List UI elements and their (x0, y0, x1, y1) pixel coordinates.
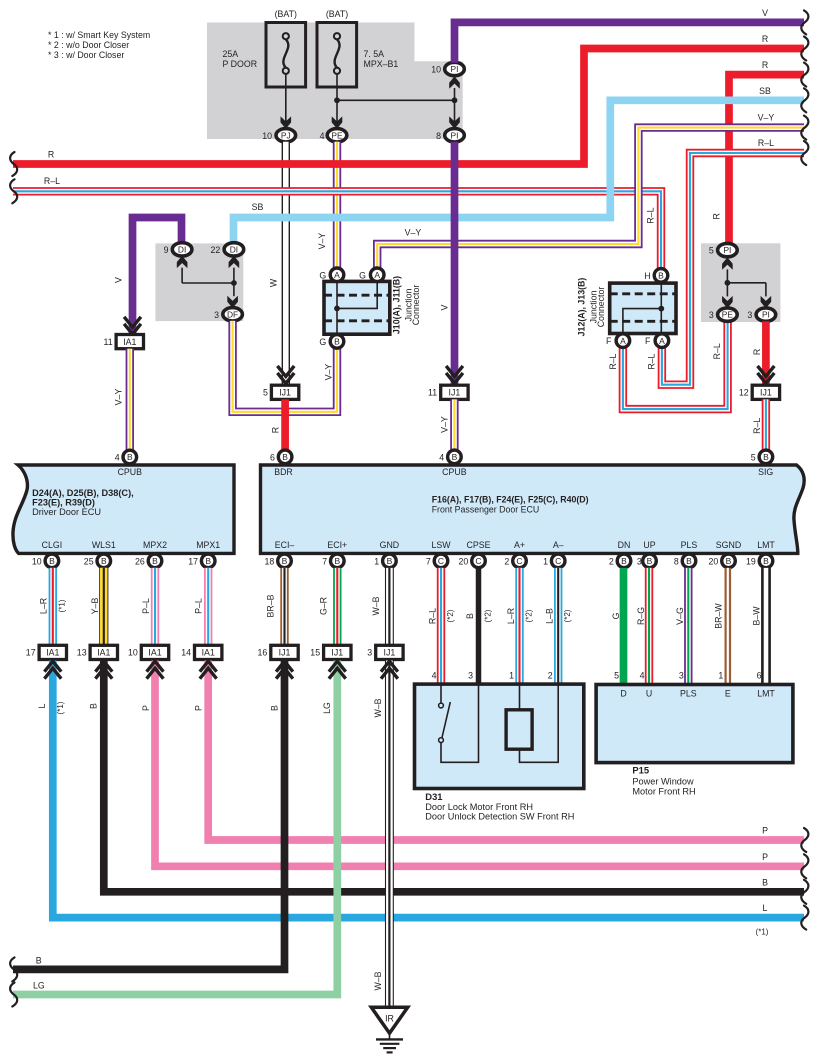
chevron arrows into IA1/IJ1 row (44, 661, 61, 672)
svg-text:A: A (374, 270, 380, 280)
svg-text:L–B: L–B (545, 608, 555, 624)
wire V (violet) to IA1 (133, 218, 182, 339)
svg-text:11: 11 (428, 388, 437, 398)
svg-text:CLGI: CLGI (42, 540, 63, 550)
svg-text:W–B: W–B (371, 596, 381, 615)
svg-text:R–L: R–L (646, 207, 656, 223)
svg-text:B: B (726, 556, 732, 566)
svg-text:SB: SB (759, 86, 771, 96)
svg-text:PJ: PJ (281, 130, 291, 140)
svg-text:PI: PI (451, 64, 459, 74)
wire V-Y right edge to junction J10 pin A (377, 128, 804, 269)
svg-text:1: 1 (374, 556, 379, 566)
wire fuse 7.5A to PE with branch to PI (336, 74, 338, 123)
svg-text:4: 4 (320, 131, 325, 141)
svg-text:DN: DN (618, 540, 631, 550)
wire V-Y IJ1 to passenger ECU CPUB (450, 399, 458, 450)
svg-text:19: 19 (746, 556, 756, 566)
wire B-W LMT to P15 (761, 568, 771, 685)
svg-text:BR–W: BR–W (714, 603, 724, 629)
svg-text:(BAT): (BAT) (326, 9, 348, 19)
svg-text:3: 3 (679, 671, 684, 681)
junction J12 pin A (right F) (655, 334, 669, 348)
svg-text:11: 11 (103, 337, 112, 347)
svg-text:B: B (282, 556, 288, 566)
svg-text:B: B (36, 956, 42, 966)
svg-text:CPSE: CPSE (467, 540, 491, 550)
connector IA1 pin 10 (141, 645, 168, 659)
svg-text:2: 2 (609, 556, 614, 566)
svg-text:ECI–: ECI– (275, 540, 295, 550)
svg-text:V–Y: V–Y (317, 233, 327, 250)
svg-text:J10(A), J11(B): J10(A), J11(B) (392, 276, 402, 334)
svg-text:B: B (465, 613, 475, 619)
connector block DI/DF (gray) (155, 243, 243, 321)
connector PE pin 3 (718, 308, 738, 321)
svg-text:L–R: L–R (506, 608, 516, 624)
port B pin 26 MPX2 (148, 554, 162, 568)
component P15 Power Window Motor Front RH (596, 685, 793, 763)
wire BR-B ECI- to IJ1 (280, 568, 288, 645)
svg-text:B: B (334, 556, 340, 566)
svg-text:IJ1: IJ1 (279, 648, 291, 658)
svg-text:R: R (752, 349, 762, 355)
port B pin 7 ECI+ (331, 554, 345, 568)
svg-text:A: A (620, 336, 626, 346)
svg-text:PLS: PLS (681, 540, 698, 550)
svg-text:MPX2: MPX2 (143, 540, 167, 550)
svg-text:4: 4 (640, 671, 645, 681)
wire B (black) IJ1 to left edge bus (13, 661, 285, 970)
svg-text:SGND: SGND (716, 540, 741, 550)
svg-text:(*2): (*2) (525, 609, 534, 622)
svg-text:(*2): (*2) (484, 609, 493, 622)
svg-text:MPX–B1: MPX–B1 (364, 59, 399, 69)
svg-text:DI: DI (178, 245, 186, 255)
svg-text:2: 2 (548, 671, 553, 681)
svg-text:C: C (438, 556, 444, 566)
connector block PE/PI (gray) (701, 243, 780, 322)
junction J10 pin B (330, 335, 344, 349)
svg-text:PI: PI (723, 245, 731, 255)
wire P-L MPX1 to IA1 (204, 568, 212, 645)
svg-text:R: R (48, 150, 54, 160)
svg-text:J12(A), J13(B): J12(A), J13(B) (577, 278, 587, 337)
svg-text:B: B (152, 556, 158, 566)
wire R connector PI pin 3 to IJ1 pin 12 (762, 321, 770, 386)
svg-text:1: 1 (543, 556, 548, 566)
wire V (violet) connector PI pin 8 to IJ1 pin 11 (451, 142, 459, 386)
svg-text:A: A (659, 336, 665, 346)
svg-text:V–Y: V–Y (113, 389, 123, 406)
wire P-L MPX2 to IA1 (151, 568, 159, 645)
junction J10 pin A (right) (370, 268, 384, 282)
wire B CPSE to D31 (476, 568, 482, 684)
port B pin 4 passenger ECU CPUB (448, 450, 462, 464)
connector IJ1 pin 12 (752, 385, 779, 399)
svg-text:(*1): (*1) (58, 599, 67, 612)
svg-text:10: 10 (128, 648, 138, 658)
svg-text:CPUB: CPUB (442, 467, 467, 477)
svg-text:Door Lock Motor Front RH: Door Lock Motor Front RH (425, 802, 533, 812)
wire R-L LSW to D31 (437, 568, 445, 684)
svg-text:P: P (762, 852, 768, 862)
svg-text:5: 5 (614, 671, 619, 681)
wire V-Y DF and J10 pin B to IJ1 (233, 321, 337, 412)
svg-text:Connector: Connector (411, 285, 421, 326)
connector DI pin 22 (224, 243, 244, 256)
wire V-Y PE to junction J10 pin A (333, 142, 341, 268)
svg-text:20: 20 (709, 556, 719, 566)
wire L-R A+ to D31 (515, 568, 523, 684)
svg-text:A–: A– (553, 540, 564, 550)
connector IJ1 pin 15 (324, 645, 351, 659)
svg-text:B: B (205, 556, 211, 566)
port B pin 6 passenger ECU BDR (278, 450, 292, 464)
svg-text:R: R (762, 34, 768, 44)
svg-text:G–R: G–R (319, 597, 329, 615)
svg-text:5: 5 (751, 452, 756, 462)
port B pin 4 driver ECU CPUB (123, 450, 137, 464)
svg-text:25: 25 (84, 556, 94, 566)
svg-text:B: B (334, 337, 340, 347)
wire P (pink) IA1 to right edge bus (upper) (208, 661, 804, 841)
svg-text:ECI+: ECI+ (327, 540, 347, 550)
port C pin 1 A- (551, 554, 565, 568)
door unlock detection switch in D31 (440, 685, 442, 703)
svg-text:5: 5 (709, 246, 714, 256)
svg-text:PI: PI (451, 130, 459, 140)
svg-text:P–L: P–L (141, 598, 151, 614)
wire P (pink) IA1 to right edge bus (lower) (155, 661, 804, 867)
svg-text:Driver Door ECU: Driver Door ECU (32, 507, 101, 517)
svg-text:IA1: IA1 (202, 648, 215, 658)
svg-text:R–L: R–L (428, 608, 438, 624)
svg-text:B: B (452, 452, 458, 462)
svg-text:V–Y: V–Y (405, 228, 422, 238)
svg-text:A: A (334, 270, 340, 280)
svg-text:R–L: R–L (44, 176, 60, 186)
svg-text:IJ1: IJ1 (449, 388, 461, 398)
door lock motor symbol in D31 (506, 710, 532, 749)
connector IJ1 pin 16 (271, 645, 298, 659)
svg-text:R: R (762, 60, 768, 70)
svg-text:B: B (763, 556, 769, 566)
svg-text:(BAT): (BAT) (275, 9, 297, 19)
svg-text:22: 22 (211, 245, 221, 255)
svg-text:U: U (646, 689, 652, 699)
port B pin 5 passenger ECU SIG (759, 450, 773, 464)
port B pin 25 WLS1 (97, 554, 111, 568)
component D31 Door Lock Motor Front RH (415, 684, 584, 788)
svg-text:B: B (387, 556, 393, 566)
svg-text:MPX1: MPX1 (196, 540, 220, 550)
svg-text:R–L: R–L (608, 353, 618, 369)
wire R-L right edge to junction J12 pin A (662, 153, 804, 385)
svg-text:V–Y: V–Y (758, 113, 775, 123)
connector DF pin 3 (223, 308, 243, 321)
svg-text:Door Unlock Detection SW Front: Door Unlock Detection SW Front RH (425, 812, 574, 822)
svg-text:B: B (269, 705, 279, 711)
svg-text:SIG: SIG (758, 467, 773, 477)
svg-text:PE: PE (722, 310, 734, 320)
svg-text:W–B: W–B (373, 698, 383, 717)
svg-text:B: B (282, 452, 288, 462)
fuse block (gray) (207, 23, 463, 140)
svg-text:(*1): (*1) (56, 701, 65, 714)
svg-text:B: B (686, 556, 692, 566)
junction J12 pin B (H) (654, 269, 668, 283)
svg-text:H: H (644, 271, 650, 281)
svg-text:IJ1: IJ1 (760, 388, 772, 398)
svg-text:Connector: Connector (596, 287, 606, 328)
port C pin 20 CPSE (472, 554, 486, 568)
svg-text:IJ1: IJ1 (384, 648, 396, 658)
svg-text:18: 18 (265, 556, 275, 566)
svg-text:2: 2 (504, 556, 509, 566)
svg-text:DF: DF (227, 309, 238, 319)
svg-text:P: P (141, 705, 151, 711)
svg-text:6: 6 (270, 452, 275, 462)
connector IJ1 pin 11 (441, 385, 468, 399)
svg-text:B: B (762, 878, 768, 888)
junction J10 pin A (left) (330, 268, 344, 282)
svg-text:R: R (712, 213, 722, 219)
svg-text:GND: GND (380, 540, 400, 550)
ground IR (371, 1007, 407, 1033)
svg-text:V: V (114, 277, 124, 283)
svg-text:14: 14 (181, 648, 191, 658)
svg-text:V–Y: V–Y (324, 364, 334, 381)
svg-text:IA1: IA1 (46, 648, 59, 658)
junction connector J10(A) J11(B) (324, 281, 390, 334)
svg-text:UP: UP (643, 540, 655, 550)
port B pin 10 CLGI (45, 554, 59, 568)
svg-text:PI: PI (762, 310, 770, 320)
svg-text:BDR: BDR (274, 467, 293, 477)
svg-text:IA1: IA1 (97, 648, 110, 658)
svg-text:10: 10 (431, 65, 441, 75)
svg-text:PE: PE (331, 130, 343, 140)
svg-text:1: 1 (509, 671, 514, 681)
svg-text:BR–B: BR–B (265, 594, 275, 617)
svg-text:P DOOR: P DOOR (223, 59, 258, 69)
svg-text:C: C (516, 556, 522, 566)
svg-text:3: 3 (637, 556, 642, 566)
svg-text:SB: SB (252, 202, 264, 212)
svg-text:(*2): (*2) (563, 609, 572, 622)
svg-text:8: 8 (674, 556, 679, 566)
svg-text:IA1: IA1 (148, 648, 161, 658)
wire R right edge to connector PI pin 5 (729, 75, 804, 244)
svg-text:C: C (475, 556, 481, 566)
svg-text:B: B (127, 452, 133, 462)
svg-text:D: D (620, 689, 626, 699)
svg-text:R: R (271, 427, 281, 433)
svg-text:LMT: LMT (757, 540, 775, 550)
connector IA1 pin 11 (116, 335, 143, 349)
connector IA1 pin 13 (90, 645, 117, 659)
connector DI pin 9 (172, 243, 192, 256)
port B pin 18 ECI- (278, 554, 292, 568)
connector PI pin 5 (718, 243, 738, 256)
svg-text:B–W: B–W (752, 606, 762, 626)
wire V-G PLS to P15 (684, 568, 692, 685)
wire L (blue) IA1 to right edge bus (53, 661, 804, 918)
svg-text:12: 12 (739, 388, 749, 398)
svg-text:8: 8 (436, 131, 441, 141)
svg-text:IJ1: IJ1 (331, 648, 343, 658)
connector PI pin 10 (445, 62, 465, 75)
wire L-R CLGI to IA1 (49, 568, 57, 645)
svg-text:R–L: R–L (758, 138, 774, 148)
wire R-L junction J12 pin A to connector PE pin 3 (623, 322, 728, 410)
wire R-L bus left edge to J12 pin H (13, 191, 661, 268)
port B pin 1 GND (383, 554, 397, 568)
svg-text:17: 17 (188, 556, 198, 566)
port B pin 3 UP (643, 554, 657, 568)
svg-text:* 3 : w/ Door Closer: * 3 : w/ Door Closer (48, 50, 124, 60)
connector IA1 pin 14 (195, 645, 222, 659)
svg-text:13: 13 (77, 648, 87, 658)
svg-text:Front Passenger Door ECU: Front Passenger Door ECU (432, 504, 540, 514)
svg-text:LG: LG (33, 981, 45, 991)
svg-text:9: 9 (164, 245, 169, 255)
svg-text:16: 16 (258, 648, 268, 658)
connector PI pin 3 (756, 308, 776, 321)
svg-text:* 2 : w/o Door Closer: * 2 : w/o Door Closer (48, 40, 129, 50)
svg-text:LMT: LMT (757, 689, 775, 699)
svg-text:W–B: W–B (373, 971, 383, 990)
svg-text:10: 10 (32, 556, 42, 566)
svg-text:(*1): (*1) (756, 928, 769, 937)
svg-text:B: B (101, 556, 107, 566)
svg-text:25A: 25A (223, 49, 239, 59)
svg-text:A+: A+ (514, 540, 525, 550)
junction connector J12(A) J13(B) (610, 283, 676, 333)
port B pin 8 PLS (682, 554, 696, 568)
wire L-B A- to D31 (554, 568, 562, 684)
svg-text:7: 7 (322, 556, 327, 566)
svg-text:IJ1: IJ1 (279, 388, 291, 398)
svg-text:V–Y: V–Y (440, 416, 450, 433)
svg-text:DI: DI (230, 245, 238, 255)
svg-text:IR: IR (385, 1014, 394, 1024)
svg-text:LG: LG (322, 702, 332, 714)
connector PJ pin 10 (276, 129, 296, 142)
svg-text:P: P (194, 705, 204, 711)
svg-text:B: B (88, 703, 98, 709)
svg-text:5: 5 (263, 388, 268, 398)
link lines DI DF with arrows (177, 256, 187, 267)
svg-text:17: 17 (26, 648, 36, 658)
svg-text:4: 4 (432, 671, 437, 681)
svg-text:3: 3 (709, 310, 714, 320)
svg-text:V: V (440, 304, 450, 310)
connector PE pin 4 (327, 129, 347, 142)
svg-text:10: 10 (262, 131, 272, 141)
port B pin 19 LMT (759, 554, 773, 568)
connector IJ1 pin 5 (277, 373, 294, 384)
svg-text:3: 3 (747, 310, 752, 320)
wire R-G UP to P15 (645, 568, 653, 685)
svg-text:7. 5A: 7. 5A (364, 49, 385, 59)
wire G-R ECI+ to IJ1 (333, 568, 341, 645)
svg-text:Motor Front RH: Motor Front RH (632, 787, 695, 797)
port B pin 2 DN (617, 554, 631, 568)
svg-text:3: 3 (367, 648, 372, 658)
wire W-B IJ1 to ground IR (385, 661, 394, 1006)
svg-text:P15: P15 (632, 765, 649, 776)
svg-text:B: B (621, 556, 627, 566)
svg-text:G: G (359, 270, 366, 280)
svg-text:B: B (658, 271, 664, 281)
wire W-B GND to IJ1 (385, 568, 394, 645)
svg-text:7: 7 (426, 556, 431, 566)
svg-text:B: B (763, 452, 769, 462)
Driver Door ECU box (13, 465, 234, 553)
svg-text:3: 3 (468, 671, 473, 681)
svg-text:B: B (49, 556, 55, 566)
svg-text:P: P (762, 826, 768, 836)
port C pin 7 LSW (434, 554, 448, 568)
port C pin 2 A+ (513, 554, 527, 568)
svg-text:20: 20 (459, 556, 469, 566)
svg-text:Power Window: Power Window (632, 776, 694, 786)
wire BR-W SGND to P15 (724, 568, 731, 685)
port B pin 17 MPX1 (201, 554, 215, 568)
svg-text:PLS: PLS (680, 689, 697, 699)
svg-text:Y–B: Y–B (90, 598, 100, 615)
svg-text:C: C (555, 556, 561, 566)
svg-text:26: 26 (135, 556, 145, 566)
svg-text:IA1: IA1 (123, 337, 136, 347)
wire R-L IJ1 to passenger ECU SIG (762, 399, 770, 450)
wire W (white) PJ to IJ1 (282, 142, 290, 386)
svg-text:F: F (606, 336, 612, 346)
wire B (black) IA1 to right edge bus (104, 661, 804, 892)
connector PI pin 8 (445, 129, 465, 142)
svg-text:1: 1 (718, 671, 723, 681)
port B pin 20 SGND (722, 554, 736, 568)
svg-text:4: 4 (439, 452, 444, 462)
svg-text:B: B (647, 556, 653, 566)
wire SB sky blue (234, 100, 805, 243)
svg-text:L–R: L–R (39, 598, 49, 614)
wire LG (light green) IJ1 to left edge bus (13, 661, 337, 995)
svg-text:G: G (319, 270, 326, 280)
svg-text:V–G: V–G (675, 607, 685, 625)
connector IA1 pin 17 (39, 645, 66, 659)
svg-text:R–L: R–L (647, 353, 657, 369)
svg-text:R–L: R–L (752, 418, 762, 434)
wire R bus (left edge to right edge) (13, 49, 804, 165)
svg-text:3: 3 (214, 310, 219, 320)
connector IJ1 pin 3 (376, 645, 403, 659)
svg-text:G: G (319, 337, 326, 347)
svg-text:LSW: LSW (431, 540, 451, 550)
wire R IJ1 to passenger ECU BDR (281, 399, 289, 450)
svg-text:15: 15 (310, 648, 320, 658)
svg-text:R–L: R–L (712, 343, 722, 359)
wire V-Y IA1 to driver ECU CPUB (126, 349, 134, 451)
wire Y-B WLS1 to IA1 (99, 568, 108, 645)
svg-text:G: G (611, 612, 621, 619)
svg-text:D31: D31 (425, 791, 442, 802)
svg-text:F: F (645, 336, 651, 346)
svg-text:W: W (269, 278, 279, 287)
link lines PI PE with arrows (722, 258, 732, 269)
